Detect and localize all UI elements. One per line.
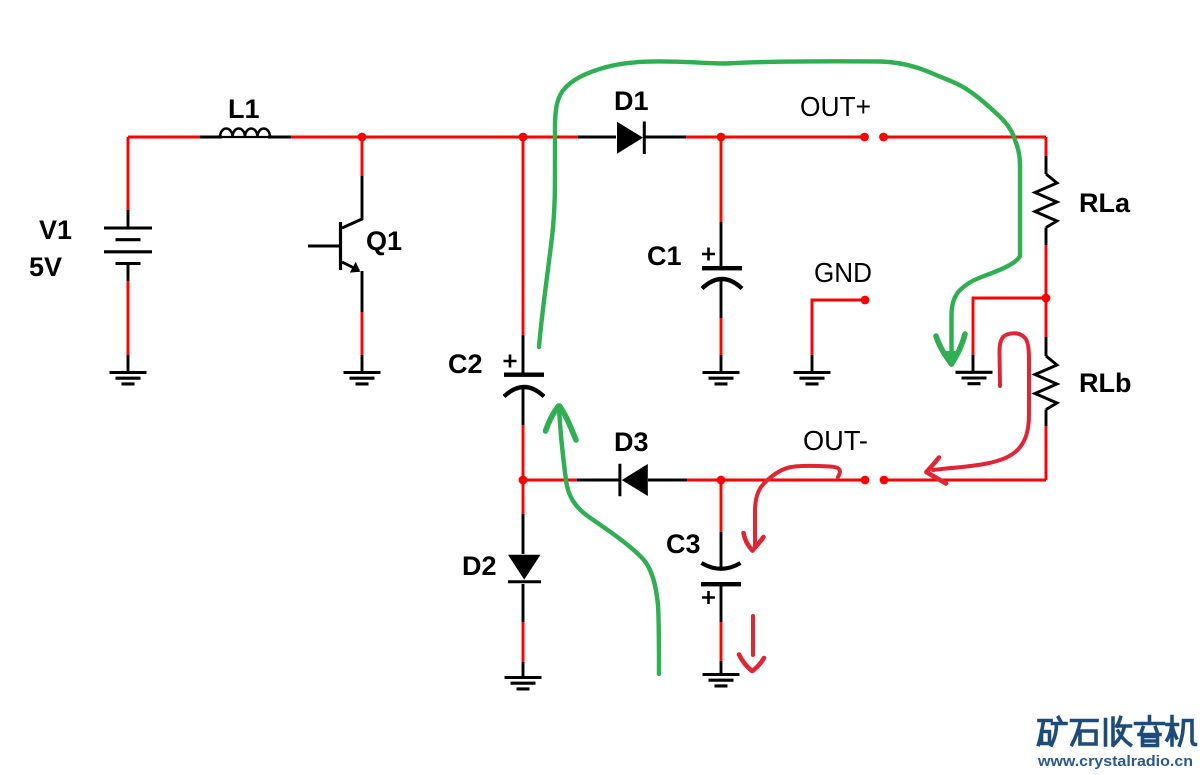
diode D3: [620, 464, 648, 496]
capacitor C3: [701, 563, 741, 604]
lead C2 top: [522, 335, 525, 373]
label C2: [448, 349, 483, 379]
label D3: [614, 427, 649, 457]
node D1-C1 junction: [717, 133, 726, 142]
ground Q1: [344, 373, 381, 384]
diode D2: [508, 555, 541, 582]
lead RLa bottom: [1045, 228, 1048, 246]
lead D1 right: [644, 136, 686, 139]
svg-text:OUT-: OUT-: [803, 425, 868, 456]
wire OUT- net: [523, 479, 1046, 482]
red hook arrow from ground through RLb to OUT-: [927, 333, 1030, 483]
lead RL junction ground: [972, 355, 975, 372]
lead C1 bottom: [720, 280, 723, 318]
lead D3 left: [577, 479, 619, 482]
wire V1 top: [127, 137, 130, 210]
svg-text:D1: D1: [614, 86, 649, 116]
ground RL junction: [956, 372, 993, 383]
wire Q1 emitter to ground: [361, 312, 364, 355]
node C2-D3-D2 junction: [519, 476, 528, 485]
node L1-Q1 junction: [358, 133, 367, 142]
label L1: [228, 94, 260, 124]
lead Q1 ground: [361, 355, 364, 372]
wire C2 bottom to node and D2: [522, 425, 525, 514]
label V1: [39, 215, 72, 245]
svg-text:RLa: RLa: [1079, 188, 1131, 218]
wire RLa to RLb junction: [1045, 245, 1048, 337]
lead C1 ground: [720, 355, 723, 372]
net OUT+: [800, 91, 871, 122]
node RLa-RLb junction: [1042, 294, 1051, 303]
node OUT- terminal pair: [861, 476, 889, 485]
ground V1: [110, 373, 147, 384]
lead D1 left: [578, 136, 616, 139]
svg-text:www.crystalradio.cn: www.crystalradio.cn: [1037, 754, 1193, 770]
transistor Q1: [308, 176, 362, 312]
wire GND net stub: [812, 300, 865, 355]
red arrow down along C3 ground: [739, 616, 764, 671]
watermark url text: [1037, 754, 1193, 770]
lead RLa top: [1045, 156, 1048, 174]
net GND: [814, 257, 872, 288]
svg-text:GND: GND: [814, 257, 872, 288]
ground C3: [703, 675, 740, 686]
wire RLb bottom to OUT-: [1045, 426, 1048, 480]
label C1: [647, 241, 682, 271]
lead C3 top: [720, 532, 723, 570]
lead L1 left: [200, 136, 222, 139]
capacitor C2: [504, 355, 545, 397]
svg-text:V1: V1: [39, 215, 72, 245]
wire C2 top branch: [522, 137, 525, 335]
green arrow up into C2 bottom: [546, 406, 660, 674]
svg-text:RLb: RLb: [1079, 368, 1131, 398]
lead RLb top: [1045, 337, 1048, 356]
wire D2 bottom to ground: [522, 622, 525, 662]
wire C3 top branch: [720, 480, 723, 532]
label Q1: [366, 226, 402, 256]
value 5V: [29, 252, 62, 282]
lead GND stub ground: [811, 355, 814, 372]
resistor RLb: [1035, 356, 1057, 410]
lead D2 ground: [522, 662, 525, 677]
label C3: [666, 529, 701, 559]
ground C1: [703, 373, 740, 384]
lead D2 top: [522, 514, 525, 554]
node OUT+ terminal pair: [860, 133, 888, 142]
resistor RLa: [1035, 174, 1057, 228]
label D1: [614, 86, 649, 116]
lead C3 bottom: [720, 586, 723, 622]
wire V1 bottom to ground: [127, 281, 130, 355]
red arrow from OUT- down to C3: [744, 466, 840, 551]
svg-text:Q1: Q1: [366, 226, 402, 256]
lead V1 ground: [127, 355, 130, 372]
svg-text:D3: D3: [614, 427, 649, 457]
wire Q1 collector: [361, 137, 364, 176]
wire junction to ground stub: [973, 298, 1046, 355]
svg-text:C2: C2: [448, 349, 483, 379]
net OUT-: [803, 425, 868, 456]
label D2: [462, 551, 497, 581]
label RLa: [1079, 188, 1131, 218]
lead C1 top: [720, 222, 723, 266]
lead D3 right: [648, 479, 687, 482]
wire C3 bottom to ground: [720, 622, 723, 661]
svg-text:5V: 5V: [29, 252, 62, 282]
svg-text:D2: D2: [462, 551, 497, 581]
svg-text:C1: C1: [647, 241, 682, 271]
wire C1 top branch: [720, 137, 723, 222]
wire right OUT+ corner to RLa: [1045, 137, 1048, 156]
svg-text:C3: C3: [666, 529, 701, 559]
node D3-C3 junction: [717, 476, 726, 485]
battery V1: [104, 228, 152, 264]
diode D1: [617, 122, 644, 155]
capacitor C1: [702, 248, 742, 289]
ground D2: [505, 678, 542, 689]
node D1-C2 junction: [519, 133, 528, 142]
lead D2 bottom: [522, 584, 525, 622]
green current loop arrow (C2 up over top to right ground): [539, 61, 1020, 367]
ground GND stub: [794, 373, 831, 384]
inductor L1: [220, 129, 270, 138]
wire C1 bottom to ground: [720, 318, 723, 355]
lead V1 bottom: [127, 264, 130, 282]
lead C3 ground: [720, 661, 723, 674]
lead V1 top: [127, 210, 130, 228]
svg-text:OUT+: OUT+: [800, 91, 871, 122]
lead RLb bottom: [1045, 410, 1048, 427]
node GND terminal: [861, 296, 870, 305]
lead C2 bottom: [522, 389, 525, 425]
svg-text:L1: L1: [228, 94, 260, 124]
wire top net V1-L1-Q1-D1-OUT+: [128, 136, 1046, 139]
lead L1 baseline: [220, 136, 270, 138]
watermark logo text (Chinese): [1039, 717, 1196, 746]
label RLb: [1079, 368, 1131, 398]
lead L1 right: [268, 136, 291, 139]
